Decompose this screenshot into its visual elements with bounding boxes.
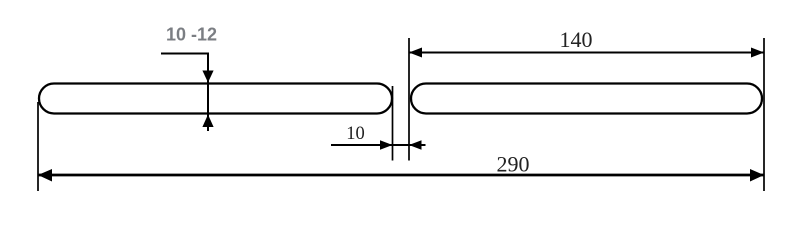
svg-text:10 -12: 10 -12 [166, 25, 217, 45]
svg-text:290: 290 [497, 152, 530, 177]
svg-text:10: 10 [346, 124, 365, 144]
svg-text:140: 140 [560, 27, 593, 52]
